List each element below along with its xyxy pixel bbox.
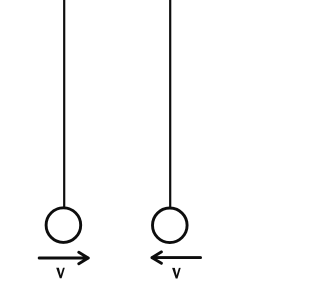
left velocity arrow (pointing right) [39, 252, 88, 263]
left label v [56, 268, 65, 279]
left pendulum ball [46, 208, 81, 243]
right label v [172, 268, 181, 279]
left pendulum string [63, 0, 65, 207]
right pendulum string [169, 0, 171, 207]
right pendulum ball [153, 208, 188, 243]
right velocity arrow (pointing left) [152, 252, 201, 263]
